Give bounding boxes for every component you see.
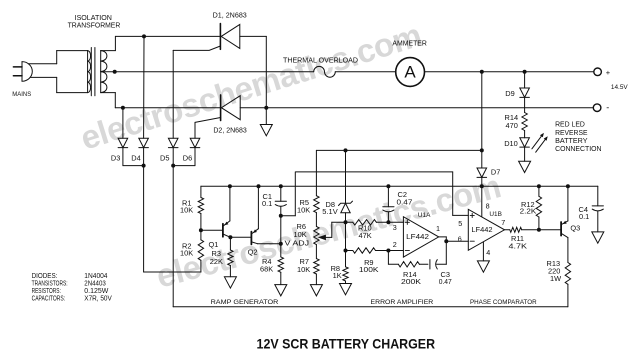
svg-text:D2, 2N683: D2, 2N683	[213, 126, 246, 135]
svg-text:A: A	[404, 62, 416, 81]
potentiometer R6 10K V ADJ	[314, 226, 319, 244]
wire U1A output to U1B pin 6	[446, 240, 468, 242]
svg-text:D10: D10	[504, 139, 518, 148]
LED D10	[520, 138, 530, 147]
thermal overload breaker	[314, 66, 336, 77]
svg-text:RED LED: RED LED	[555, 121, 585, 128]
ground below D10	[524, 147, 526, 161]
wire R11 to Q3 base	[522, 229, 561, 231]
ground below R3	[229, 266, 231, 277]
svg-text:1K: 1K	[333, 271, 342, 280]
resistor R13 220 1W	[565, 263, 570, 285]
svg-text:THERMAL OVERLOAD: THERMAL OVERLOAD	[283, 57, 358, 65]
wire U1B output pin 7	[505, 229, 510, 231]
diode D3	[118, 138, 128, 147]
transformer core	[90, 48, 92, 96]
svg-text:1W: 1W	[550, 274, 561, 283]
node Q1 collector junction	[228, 235, 232, 239]
svg-text:0.47: 0.47	[439, 277, 452, 286]
wire plug to transformer primary	[28, 63, 57, 65]
resistor R12 2.2K	[538, 186, 540, 196]
svg-text:0.47: 0.47	[397, 198, 413, 207]
svg-text:10K: 10K	[180, 205, 193, 214]
svg-text:Q3: Q3	[570, 223, 580, 232]
svg-text:D1, 2N683: D1, 2N683	[213, 10, 247, 19]
svg-text:22K: 22K	[210, 257, 223, 266]
resistor R9 100K	[346, 250, 353, 252]
svg-text:5.1V: 5.1V	[322, 207, 337, 216]
diode D4	[139, 138, 149, 147]
wire Q2 collector to C1/R4	[258, 243, 281, 245]
node R1/R2 junction	[200, 214, 202, 240]
resistor R1 10K	[200, 186, 202, 197]
svg-text:RAMP GENERATOR: RAMP GENERATOR	[211, 299, 279, 306]
resistor R7 10K	[315, 245, 317, 259]
resistor R2 10K	[198, 240, 203, 260]
svg-text:V ADJ: V ADJ	[285, 239, 310, 248]
capacitor C2 0.47	[387, 186, 389, 207]
ground (common) below D1/D2 junction	[265, 108, 267, 125]
node D9 branch on + rail	[523, 70, 527, 74]
svg-text:200K: 200K	[401, 277, 421, 286]
wire SCR D1 anode side down to common node	[240, 35, 266, 37]
svg-text:1N4004: 1N4004	[84, 273, 107, 280]
svg-text:X7R, 50V: X7R, 50V	[84, 295, 112, 302]
transistor Q2	[250, 232, 252, 245]
diode D9	[520, 88, 530, 97]
wire top rail (secondary top end to SCR D1)	[115, 35, 220, 37]
wire + rail to D7	[481, 72, 483, 168]
wire overload to ammeter	[335, 71, 395, 73]
svg-text:2: 2	[393, 240, 397, 249]
svg-text:LF442: LF442	[406, 232, 429, 241]
wire - rail from SCR D2 to - terminal	[240, 107, 593, 109]
wire secondary bottom to - rail	[101, 92, 116, 94]
diode D5	[168, 138, 178, 147]
node D7 branch on + rail	[480, 70, 484, 74]
svg-text:10K: 10K	[297, 265, 310, 274]
svg-text:470: 470	[506, 121, 518, 130]
SCR D2	[220, 95, 222, 121]
node regulator line on D7 branch	[480, 148, 484, 152]
svg-text:CONNECTION: CONNECTION	[555, 146, 601, 153]
svg-text:68K: 68K	[260, 265, 273, 274]
svg-text:10K: 10K	[180, 249, 193, 258]
svg-text:1: 1	[436, 224, 440, 233]
svg-text:3: 3	[393, 223, 397, 232]
wire D3-D4 junction to ramp divider return	[123, 165, 144, 167]
wire + rail to D9	[524, 72, 526, 88]
wire Q1 collector to Q2 base	[230, 236, 251, 238]
wire - rail left of SCR D2	[115, 107, 220, 109]
svg-text:-: -	[606, 102, 609, 112]
wire regulated line R5/D8 to D7	[316, 149, 481, 151]
wire U1A output	[439, 236, 447, 238]
svg-text:CAPACITORS:: CAPACITORS:	[32, 295, 66, 302]
resistor R8 1K	[343, 267, 348, 281]
svg-text:D6: D6	[183, 154, 192, 163]
svg-text:+: +	[606, 68, 611, 77]
wire D1 gate to D5	[173, 46, 220, 50]
svg-text:D3: D3	[111, 154, 120, 163]
svg-text:0.1: 0.1	[579, 212, 589, 221]
wire D2 gate to D6	[195, 118, 221, 123]
svg-text:TRANSFORMER: TRANSFORMER	[68, 22, 121, 29]
svg-text:4: 4	[486, 248, 490, 257]
svg-text:4.7K: 4.7K	[509, 242, 528, 251]
node D3 tap on - rail	[121, 106, 125, 110]
svg-text:2N4403: 2N4403	[84, 281, 106, 288]
ground below R8	[345, 281, 347, 284]
wire center tap rail	[101, 71, 314, 73]
wire D7 to op-amp supply rail	[481, 177, 483, 216]
resistor R5 10K	[315, 150, 317, 195]
resistor R11 4.7K	[510, 227, 522, 232]
svg-text:47K: 47K	[359, 231, 372, 240]
svg-text:BATTERY: BATTERY	[555, 138, 588, 145]
diode D7	[477, 168, 487, 177]
wire secondary top to top rail	[101, 50, 116, 52]
transistor Q3	[560, 222, 562, 236]
+ output terminal	[594, 68, 602, 76]
resistor R14 470	[522, 113, 527, 131]
node center tap	[113, 70, 117, 74]
svg-text:0.1: 0.1	[262, 199, 272, 208]
capacitor C4 0.1	[597, 186, 599, 206]
svg-text:D4: D4	[131, 154, 140, 163]
transformer T1 primary winding	[87, 51, 89, 93]
ground below R7	[315, 274, 317, 285]
wire Q3 collector to R13	[567, 238, 569, 263]
resistor R14 200K	[398, 262, 419, 267]
svg-text:10K: 10K	[297, 206, 310, 215]
svg-text:PHASE COMPARATOR: PHASE COMPARATOR	[470, 299, 537, 306]
ground below U1B	[477, 261, 489, 272]
svg-text:AMMETER: AMMETER	[392, 40, 427, 47]
wire reference line to U1B pin 5	[296, 171, 453, 173]
svg-text:ERROR AMPLIFIER: ERROR AMPLIFIER	[371, 299, 434, 306]
svg-text:D5: D5	[160, 154, 169, 163]
- output terminal	[593, 104, 601, 112]
svg-text:LF442: LF442	[471, 225, 492, 234]
wire U1A feedback R14/C3	[387, 251, 389, 265]
svg-text:7: 7	[501, 218, 505, 227]
wire common rail	[201, 185, 598, 187]
wire trigger line to R13	[173, 306, 568, 308]
svg-text:U1A: U1A	[418, 212, 431, 219]
svg-text:Q2: Q2	[248, 247, 258, 256]
svg-text:TRANSISTORS:: TRANSISTORS:	[32, 281, 68, 288]
zener diode D8 5.1V	[345, 150, 347, 203]
capacitor C1 0.1	[280, 186, 282, 201]
svg-text:5: 5	[458, 219, 462, 228]
wire D8 anode chain	[345, 213, 347, 267]
wire D4 anode from top rail	[143, 36, 145, 138]
wire to Q1 base	[201, 229, 223, 231]
diode D6	[190, 138, 200, 147]
svg-text:D9: D9	[505, 89, 514, 98]
resistor R10 47K	[346, 221, 353, 223]
svg-text:MAINS: MAINS	[12, 91, 31, 98]
svg-text:RESISTORS:: RESISTORS:	[32, 288, 61, 295]
node common junction of D1/D2	[264, 106, 268, 110]
wire D5-D6 junction to trigger line	[173, 165, 195, 167]
svg-text:DIODES:: DIODES:	[32, 273, 58, 280]
svg-text:ISOLATION: ISOLATION	[75, 15, 112, 22]
wire ammeter to + terminal	[425, 71, 594, 73]
wire D3 anode from - rail	[122, 108, 124, 139]
svg-text:6: 6	[458, 235, 462, 244]
svg-text:100K: 100K	[359, 265, 379, 274]
ammeter M1	[396, 58, 425, 87]
node D4 tap on top rail	[142, 34, 146, 38]
svg-text:8: 8	[486, 201, 490, 210]
op-amp U1B LF442	[468, 209, 504, 250]
SCR D1	[219, 24, 221, 50]
svg-text:REVERSE: REVERSE	[555, 130, 588, 137]
ground below R4	[280, 272, 282, 284]
wire C1 ramp node to U1B pin 5 line	[281, 215, 296, 217]
mains plug	[22, 62, 32, 82]
resistor R4 68K	[278, 257, 283, 272]
wire U1B pin 4 to ground	[482, 242, 484, 261]
svg-text:Q1: Q1	[209, 240, 219, 249]
transistor Q1	[222, 224, 224, 237]
svg-text:0.125W: 0.125W	[84, 288, 108, 295]
LED arrows	[532, 134, 543, 149]
resistor R3 22K	[229, 237, 231, 250]
svg-text:D7: D7	[491, 167, 500, 176]
op-amp U1A LF442	[403, 217, 438, 257]
svg-text:14.5V: 14.5V	[611, 84, 628, 91]
svg-text:2.2K: 2.2K	[520, 207, 537, 216]
ground below C4	[592, 232, 604, 243]
svg-text:12V SCR BATTERY CHARGER: 12V SCR BATTERY CHARGER	[257, 336, 436, 352]
capacitor C3 0.47	[429, 260, 431, 269]
transformer T1 secondary winding	[100, 51, 102, 93]
